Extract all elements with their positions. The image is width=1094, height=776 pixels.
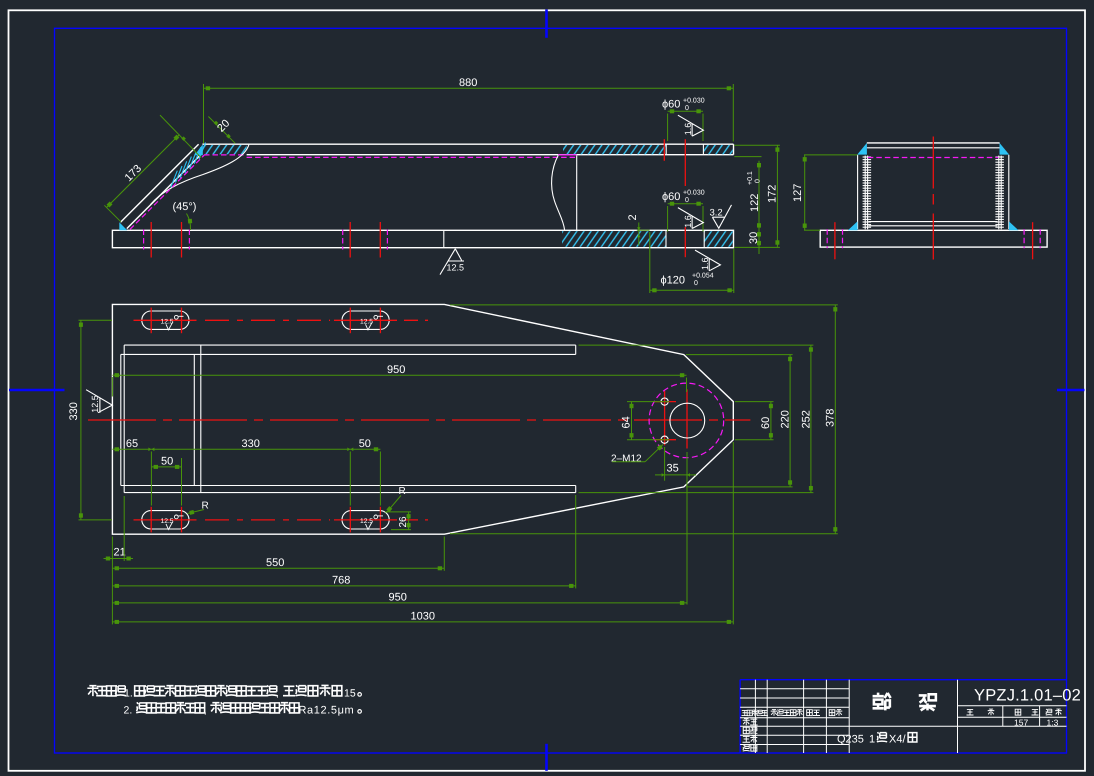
svg-text:550: 550 [266,557,284,569]
dimension 50 lower [151,466,181,468]
plan view: bottom slot row centerline red [134,519,197,521]
side view: inclined bar lower line [127,155,201,229]
extension verticals for slot dims [150,452,152,506]
plan view: slot bottom-left [142,511,189,529]
plan view: hole vertical centerline red [686,389,688,448]
plan view: stiffener verticals [193,354,195,485]
svg-text:3.2: 3.2 [710,208,723,219]
svg-text:2: 2 [627,214,639,220]
end view: hidden top magenta [868,157,999,159]
svg-text:252: 252 [801,410,813,428]
end view: right wall outer line [1008,155,1010,229]
dimension 64 [631,402,633,440]
plan view: slot top-left [142,311,189,329]
side view: rail hidden step magenta [558,154,577,156]
centering mark top [545,10,548,38]
svg-text:35: 35 [667,463,679,475]
dimension 60 right [770,402,772,440]
dimension 65 330 50 line [112,448,380,450]
svg-text:157: 157 [1014,717,1028,727]
left column labels 设计/审核/工艺/批准 [743,718,750,725]
plan view: slot cross verticals red top row [150,308,152,334]
dimension 2 small [638,223,640,246]
svg-text:64: 64 [621,416,633,428]
svg-text:ϕ60: ϕ60 [662,191,680,203]
plan view: M12 hole bottom [661,436,668,443]
dimension 172 [776,145,778,247]
end view: slot hidden edges magenta [826,229,828,248]
roughness 1.6 top [678,115,704,136]
svg-text:30: 30 [748,232,760,244]
title block outer blue lines [739,680,741,753]
side view: inclined bar hidden magenta [130,155,205,230]
extension verticals at hole [664,447,666,481]
svg-text:65: 65 [126,438,138,450]
svg-text:1:3: 1:3 [1047,717,1059,727]
svg-text:26: 26 [398,516,409,528]
svg-text:1.6: 1.6 [700,257,710,270]
technical notes line 1 [87,685,98,696]
end view: bolt centerlines red [834,222,836,259]
roughness 3.2 on plate [712,205,731,228]
dimension 1030 [112,621,733,623]
plan view: box inner rect lines [121,353,576,355]
svg-text:1.6: 1.6 [683,123,693,136]
end view: weld triangle bottom left [848,221,858,230]
svg-text:0: 0 [685,197,689,204]
dimension 330 left vertical [80,320,82,520]
side view: top rail bottom line [247,154,734,156]
svg-text:ϕ120: ϕ120 [661,275,686,287]
dimension 35 [665,474,687,476]
svg-text:ϕ60: ϕ60 [662,99,680,111]
dimension 26 [408,512,410,530]
right header cells 共张 重量 比例 [967,710,974,715]
plan view: box outer rect lines [124,344,576,346]
side view: rail hatch right [704,145,733,154]
roughness 1.6 at phi120 [695,250,720,271]
svg-text:12.5: 12.5 [447,263,465,273]
svg-text:YPZJ.1.01–02: YPZJ.1.01–02 [974,687,1081,705]
svg-text:2–M12: 2–M12 [611,454,642,465]
svg-text:950: 950 [387,364,405,376]
plan view: main centerline red [88,419,750,421]
svg-text:1.: 1. [124,688,133,700]
title block grid horizontals [740,688,849,690]
side view: inclined bar upper line [121,144,199,222]
svg-text:+0.030: +0.030 [683,190,705,197]
svg-text:378: 378 [825,409,837,427]
end view: top cap lines [867,142,1000,144]
centering mark right [1057,389,1085,392]
plan view: M12 hole top [661,398,668,405]
centering mark left [9,389,65,392]
roughness 12.5 at left edge rotated [86,390,112,413]
plan view: box right end verticals [575,345,577,354]
svg-text:1: 1 [869,734,875,746]
plan view: slot cross verticals red bottom row [150,507,152,533]
side view: top rail top line [202,143,733,145]
dimension 252 [810,345,812,493]
svg-text:R: R [399,486,406,497]
plan view: boss phi120 hidden circle magenta [649,383,724,458]
svg-text:50: 50 [161,456,173,468]
title block grid verticals [754,680,756,753]
plan view: M12 vertical centerline red [664,391,666,445]
svg-text:768: 768 [332,575,350,587]
plan view: top slot row centerline red [134,319,197,321]
end view: left wall outer line [857,155,859,229]
end view: right weld seam ladder [995,156,1004,230]
svg-text:172: 172 [767,185,779,203]
svg-text:1.6: 1.6 [683,215,693,228]
end view: weld triangle bottom right [1009,221,1019,230]
roughness 12.5 under plate [440,249,464,275]
side view: plate hole edge lines [665,230,667,247]
svg-text:950: 950 [389,592,407,604]
plan view: slot top-right [342,311,389,329]
dimension 173 along bar [106,135,179,208]
side view: rail hatch mid [563,145,666,154]
svg-text:0: 0 [755,179,762,183]
side view: slot centerlines red right pair [349,222,351,258]
svg-text:330: 330 [68,402,80,420]
dimension 768 [112,585,575,587]
svg-text:330: 330 [242,438,260,450]
end view: weld triangle top left [857,143,867,155]
side view: rail hatch weld zone left [203,145,247,154]
side view: weld zone hidden magenta under left hatch [204,154,247,156]
svg-text:+0.030: +0.030 [683,98,705,105]
svg-text:0: 0 [694,280,698,287]
dimension 122 [758,161,760,230]
svg-text:,: , [276,688,279,700]
side view: bottom plate outline [112,230,733,247]
svg-text:,: , [204,705,207,717]
roughness 1.6 lower [678,208,704,229]
svg-text:12.5: 12.5 [90,395,100,413]
svg-text:1030: 1030 [411,611,435,623]
svg-text:60: 60 [760,417,772,429]
side view: break S-curve mid [552,155,565,230]
header row tiny: 标记 处数 分区 更改文件号 签字 日期 [742,710,749,715]
svg-text:122: 122 [749,194,761,212]
end view: weld triangle top right [1000,143,1010,155]
end view: left weld seam ladder [863,156,872,230]
svg-text:Q235: Q235 [837,734,864,746]
side view: bottom plate hatch right of hole [704,231,732,247]
dimension 20 along rail [160,115,201,158]
left edge extension vertical [111,537,113,625]
centering mark bottom [545,744,548,771]
plan view: slot bottom-right [342,511,389,529]
side view: plate taper corner edge line [443,230,445,247]
svg-text:15: 15 [344,688,356,700]
side view: box end vertical [576,156,578,231]
dimension 378 [834,305,836,534]
end view: base plate [820,230,1047,247]
part name big text [873,693,891,711]
side view: rail hidden line magenta [247,156,577,158]
svg-text:50: 50 [359,438,371,450]
side view: bottom plate hatch left of hole [562,231,666,247]
side view: break S-curve left [151,145,249,205]
dimension 220 [789,355,791,487]
roughness 12.5 in slot 1 [161,315,184,330]
side view: rail hole edge lines [665,144,667,155]
dimension 30 [758,223,760,230]
side view: slot centerlines red left pair [150,222,152,258]
dimension 950 bottom [112,602,686,604]
plan view: outer plate outline [112,304,733,534]
svg-text:(45°): (45°) [173,201,197,213]
dimension 21 [104,558,113,560]
svg-text:+0.054: +0.054 [692,273,714,280]
side view: slot hidden edges magenta [143,230,145,250]
plan view: center hole phi60 [670,403,705,438]
dimension 950 top [112,374,686,376]
side view: weld triangle at bar bottom [119,222,127,230]
dimension 550 [112,567,444,569]
svg-text:880: 880 [459,77,477,89]
svg-text:2.: 2. [124,705,133,717]
dimension 880 [204,87,734,89]
side view: top rail right end [733,144,735,155]
svg-text:Ra12.5μm: Ra12.5μm [299,705,355,717]
side view: M12 hole centerline red short [663,139,665,161]
svg-text:+0.1: +0.1 [747,171,754,185]
side view: main hole centerline red [684,139,686,186]
dimension 127 [804,155,806,230]
svg-text:220: 220 [780,410,792,428]
svg-text:X4/: X4/ [889,734,906,746]
side view: weld triangle at rail corner [195,144,203,155]
svg-text:127: 127 [792,184,804,202]
title block right section lines [958,705,1067,707]
end view: vertical centerline red [932,137,934,189]
end view: inner bottom lines [868,221,997,223]
side view: inclined bar hatch strokes [171,143,206,188]
